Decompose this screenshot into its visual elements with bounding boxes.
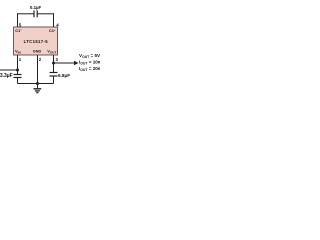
- svg-text:VIN: VIN: [15, 49, 21, 55]
- svg-text:VOUT = 5V: VOUT = 5V: [79, 53, 100, 59]
- svg-text:0.1µF: 0.1µF: [30, 5, 42, 10]
- svg-text:4: 4: [56, 22, 59, 27]
- svg-text:3: 3: [56, 57, 59, 62]
- svg-text:LTC1517-5: LTC1517-5: [24, 39, 49, 44]
- svg-text:1: 1: [19, 57, 22, 62]
- svg-text:GND: GND: [33, 49, 42, 53]
- svg-text:3.3µF: 3.3µF: [0, 73, 13, 79]
- svg-text:6.8µF: 6.8µF: [58, 73, 70, 78]
- svg-text:2: 2: [39, 57, 42, 62]
- svg-text:IOUT = 20mA: IOUT = 20mA: [79, 66, 100, 72]
- svg-text:IOUT = 10mA: IOUT = 10mA: [79, 60, 100, 66]
- svg-text:VOUT: VOUT: [47, 49, 56, 55]
- svg-text:5: 5: [19, 22, 22, 27]
